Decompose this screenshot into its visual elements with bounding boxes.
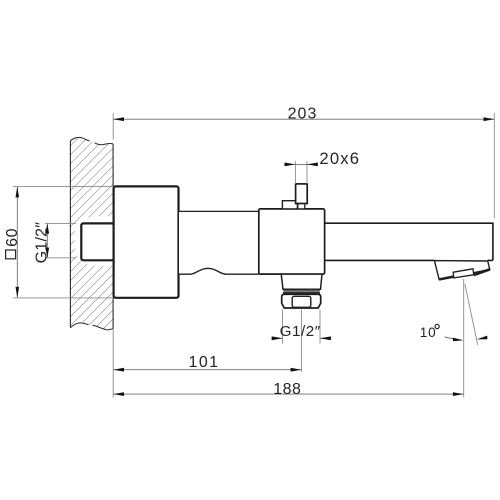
- dimension 20x6: left arrowhead: [285, 163, 296, 167]
- dimension G1/2 inlet: bottom arrowhead: [46, 248, 50, 258]
- body neck fill: [179, 212, 259, 274]
- gasket ring top line: [283, 289, 320, 291]
- dimension 20x6: dimension line: [284, 163, 318, 165]
- flange: [114, 186, 179, 297]
- svg-text:G1/2″: G1/2″: [280, 323, 321, 340]
- wall cutout around inlet: [75, 216, 113, 266]
- wall hatching: [70, 137, 113, 330]
- svg-text:188: 188: [273, 381, 301, 398]
- dimension G1/2 inlet: top extension line: [45, 222, 76, 224]
- wall right edge lower segment: [112, 298, 114, 329]
- dimension G1/2 bottom: right leader: [320, 337, 331, 339]
- dimension sq60: top extension line: [13, 185, 114, 187]
- dimension 10deg: slanted reference line: [465, 284, 478, 345]
- dimension sq60: dimension line: [16, 187, 18, 297]
- dimension 203: left arrowhead: [113, 117, 124, 121]
- svg-text:20x6: 20x6: [319, 149, 360, 168]
- diverter knob: [296, 184, 308, 204]
- dimension 203: right arrowhead: [484, 117, 495, 121]
- dimension G1/2 bottom: left arrowhead: [272, 336, 283, 340]
- hose nut inner flat: [292, 296, 311, 307]
- dimension G1/2 inlet: bottom extension line: [45, 257, 76, 259]
- outlet mouth: [434, 261, 489, 280]
- dimension 188: left extension line: [112, 329, 114, 398]
- plate left of knob: [282, 201, 297, 209]
- svg-text:G1/2″: G1/2″: [33, 222, 50, 264]
- gasket ring band: [283, 291, 320, 294]
- dimension 10deg: leader line: [445, 337, 456, 339]
- dimension sq60: bottom extension line: [13, 297, 114, 299]
- dimension sq60: top arrowhead: [16, 187, 20, 198]
- dimension 101: left arrowhead: [113, 368, 124, 372]
- dimension 188: left arrowhead: [113, 392, 124, 396]
- spout tube: [325, 223, 493, 260]
- svg-text:203: 203: [288, 105, 318, 122]
- dimension G1/2 bottom: right extension line: [319, 310, 321, 344]
- wall left edge: [69, 141, 71, 328]
- dimension 101: right arrowhead: [291, 368, 302, 372]
- diverter block: [259, 209, 325, 274]
- svg-text:101: 101: [189, 354, 220, 371]
- dimension 203: left extension line: [112, 113, 114, 140]
- lower housing: [281, 274, 322, 289]
- dimension 20x6: right arrowhead: [307, 163, 318, 167]
- dimension sq60: label square symbol: [6, 250, 16, 259]
- wall bottom break line: [70, 323, 113, 330]
- dimension G1/2 bottom: right arrowhead: [320, 336, 331, 340]
- dimension sq60: bottom arrowhead: [16, 287, 20, 298]
- svg-text:10: 10: [420, 325, 437, 340]
- dimension 10deg: left arrowhead: [453, 338, 464, 342]
- mouth rim left hatch: [439, 277, 453, 280]
- dimension 101: dimension line: [113, 369, 301, 371]
- body neck top edge: [179, 210, 259, 212]
- knob stem: [298, 204, 305, 209]
- dimension 188: right extension line (10deg vertical reference): [463, 279, 465, 397]
- dimension G1/2 inlet: dimension line: [46, 224, 48, 258]
- dimension 10deg: right arrowhead: [477, 336, 488, 340]
- dimension 203: dimension line: [113, 118, 494, 120]
- dimension 20x6: left extension line: [294, 161, 296, 184]
- wall top break line: [70, 137, 113, 144]
- mouth rim right hatch: [474, 269, 490, 275]
- aerator insert: [453, 269, 474, 278]
- dimension G1/2 inlet: top arrowhead: [46, 223, 50, 233]
- dimension 10deg: degree circle: [435, 324, 439, 328]
- dimension 203: right extension line: [493, 113, 495, 219]
- dimension G1/2 bottom: left extension line: [282, 310, 284, 344]
- wall right edge upper segment: [112, 144, 114, 187]
- dimension 188: right arrowhead: [453, 392, 464, 396]
- dimension G1/2 bottom: left leader: [271, 337, 282, 339]
- hose nut outer: [282, 294, 321, 308]
- dimension 188: dimension line: [113, 393, 464, 395]
- inlet union G1/2: [81, 223, 114, 260]
- dimension 20x6: right extension line: [306, 161, 308, 184]
- dimension G1/2 bottom: center extension line: [300, 310, 302, 372]
- tube bottom edge right part: [488, 259, 493, 261]
- body neck bottom edge with wave: [179, 268, 259, 274]
- svg-text:60: 60: [4, 228, 21, 247]
